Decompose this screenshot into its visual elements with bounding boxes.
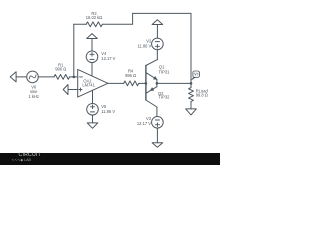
wire R2 right	[102, 23, 132, 25]
wire Q2 collector down	[156, 107, 158, 117]
CircuitLab watermark bar	[0, 153, 220, 165]
ground GND-V4 (points up)	[87, 34, 98, 39]
wire jog up	[132, 13, 134, 24]
svg-text:1 kHz: 1 kHz	[28, 94, 38, 99]
source V4	[86, 51, 98, 63]
svg-text:12.17 V: 12.17 V	[101, 56, 115, 61]
wire Q1 collector up	[156, 50, 158, 60]
wire output row	[157, 82, 191, 84]
ground GND-V3 (points down)	[152, 143, 163, 147]
svg-text:LM741: LM741	[82, 83, 95, 88]
probe V1 flag	[191, 77, 195, 80]
svg-text:996 Ω: 996 Ω	[125, 73, 136, 78]
ground GND-V5 (points down)	[87, 123, 98, 128]
transistor Q1 collector diagonal	[146, 60, 157, 66]
resistor RLoad (vertical)	[190, 83, 192, 87]
ground GND-left (points left)	[10, 72, 16, 82]
wire feedback vertical	[73, 24, 75, 77]
wire op-amp output	[108, 82, 124, 84]
ground GND-V2 (points up)	[152, 20, 163, 25]
svg-text:996 Ω: 996 Ω	[55, 67, 66, 72]
svg-text:TIP31: TIP31	[159, 70, 171, 75]
wire right vertical to output node	[190, 13, 192, 83]
wire V4 to op-amp V+ pin	[91, 63, 93, 76]
wire R4 to bases	[139, 82, 146, 84]
wire to R2	[74, 23, 86, 25]
op-amp OA1 LM741	[78, 69, 108, 97]
source V2	[152, 38, 164, 50]
wire V4 up to ground arrow	[91, 39, 93, 52]
wire R1 to op-amp inverting input	[70, 76, 78, 78]
svg-text:99.8 Ω: 99.8 Ω	[196, 92, 208, 97]
wire ground to V6	[16, 76, 27, 78]
svg-text:TIP32: TIP32	[159, 95, 171, 100]
node B (base junction)	[145, 82, 148, 85]
svg-text:11.86 V: 11.86 V	[101, 109, 115, 114]
resistor R2	[86, 22, 102, 27]
wire V2 to ground arrow	[156, 25, 158, 39]
wire V6 to R1	[38, 76, 54, 78]
transistor Q2 collector diagonal	[146, 100, 157, 107]
wire ground to + input	[68, 89, 78, 91]
source V6 sine	[27, 71, 39, 83]
svg-text:V2: V2	[146, 38, 152, 43]
wire Q1 emitter down	[156, 80, 158, 84]
transistor Q2 TIP32 (PNP): emitter with arrow	[156, 83, 158, 86]
probe V1 text glyphs	[195, 73, 198, 76]
ground GND-plus-input (points left)	[63, 85, 68, 95]
node D (RLoad junction)	[190, 82, 193, 85]
svg-text:11.86 V: 11.86 V	[137, 44, 151, 49]
source V5	[87, 104, 99, 116]
resistor R1	[54, 75, 70, 80]
wire op-amp V- pin to V5	[92, 90, 94, 103]
transistor Q1 TIP31 (NPN): base bar	[145, 66, 147, 101]
svg-text:12.17 V: 12.17 V	[137, 121, 151, 126]
node C (output emitter junction)	[156, 82, 159, 85]
resistor R4	[124, 81, 139, 86]
transistor Q1 emitter with arrow	[146, 73, 157, 80]
node A (inverting input junction)	[73, 76, 76, 79]
wire top run	[133, 12, 191, 14]
wire V5 down to ground	[92, 115, 94, 123]
wire V3 to ground	[156, 128, 158, 143]
ground GND-RLoad (points down)	[186, 109, 197, 115]
source V3	[152, 117, 164, 129]
svg-text:16.02 kΩ: 16.02 kΩ	[86, 15, 103, 20]
